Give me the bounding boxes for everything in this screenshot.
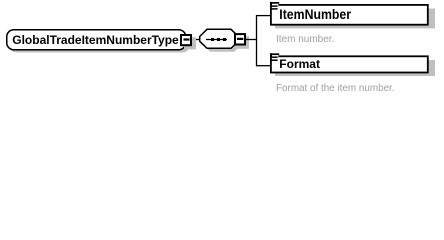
sequence compositor [200,29,242,52]
complexType GlobalTradeItemNumberType [7,30,190,53]
svg-text:GlobalTradeItemNumberType: GlobalTradeItemNumberType [12,33,179,47]
svg-text:Format of the item number.: Format of the item number. [276,83,395,94]
svg-text:ItemNumber: ItemNumber [279,6,351,22]
wire sequence to branch [246,39,257,41]
wire to ItemNumber [256,15,271,17]
svg-text:Format: Format [279,57,320,71]
branch vertical wire [256,15,258,66]
expand box on main box [181,35,196,49]
element Format [271,53,435,76]
expand box on sequence [235,34,249,49]
svg-text:Item number.: Item number. [276,34,334,45]
element ItemNumber [271,2,435,29]
wire main box to sequence [191,39,201,41]
wire to Format [256,65,271,67]
